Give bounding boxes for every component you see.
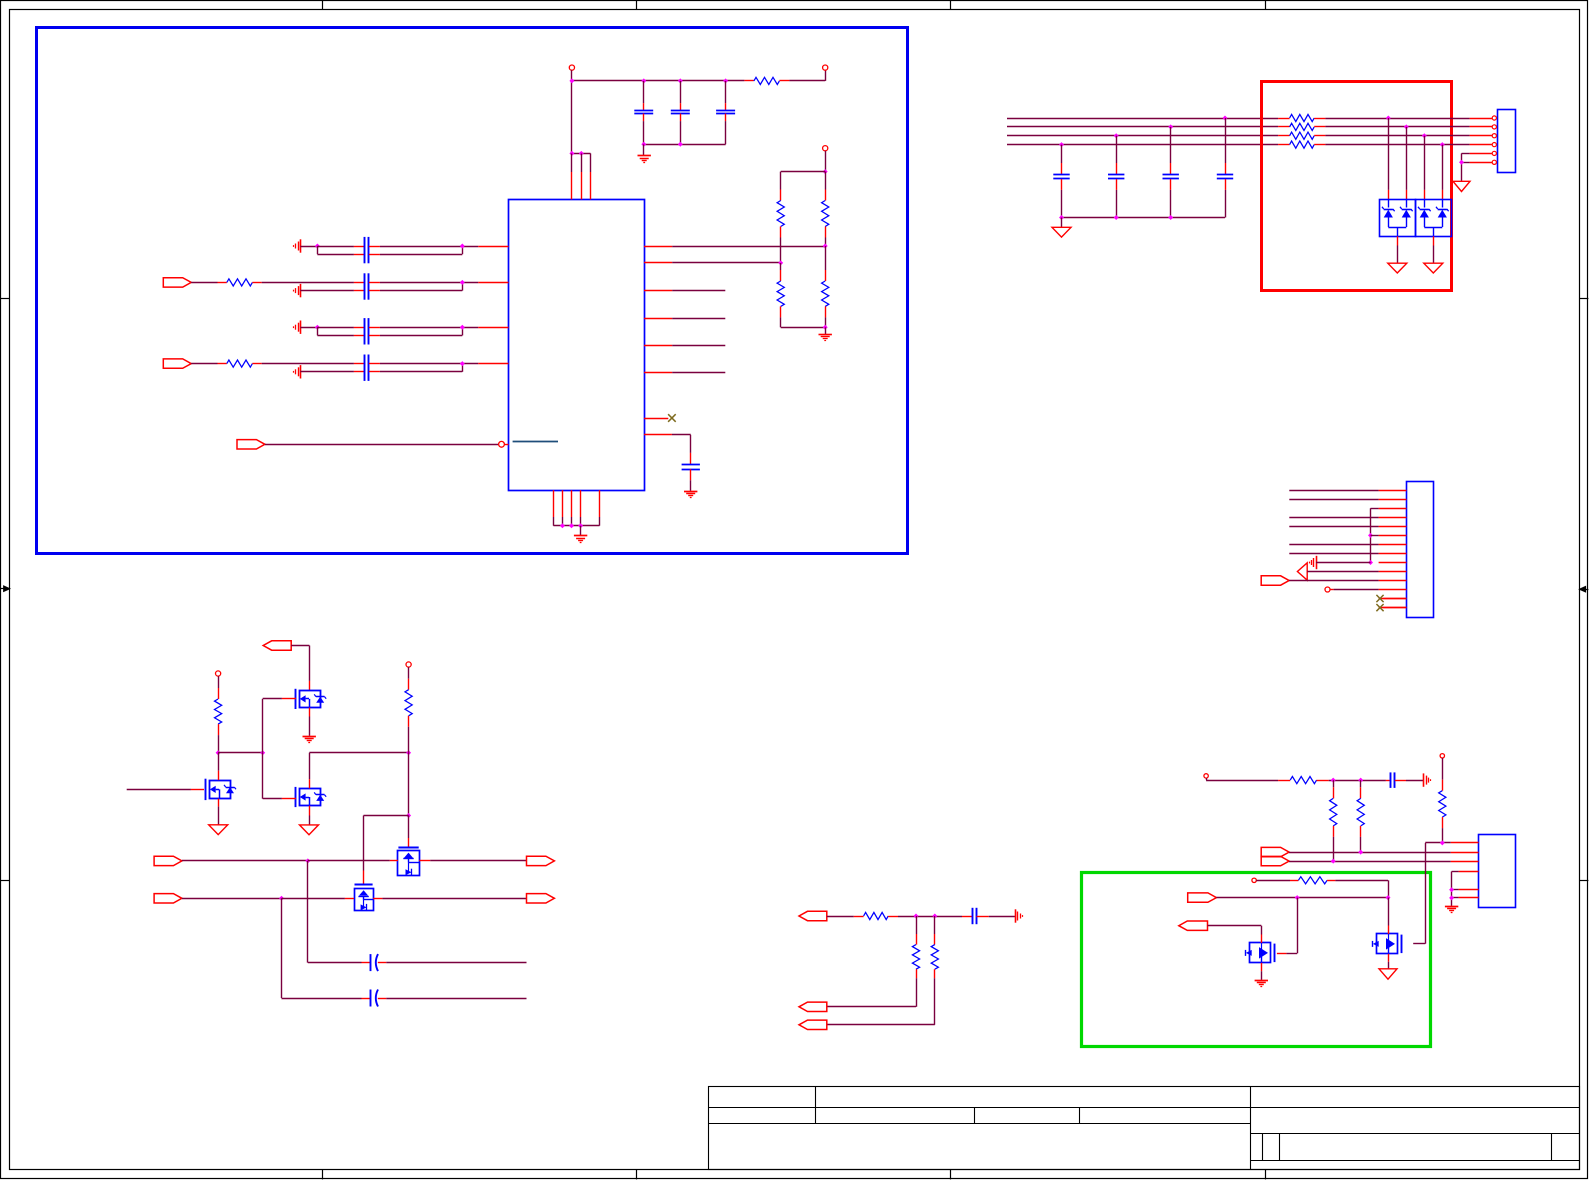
title block cell dividers left	[815, 1087, 817, 1124]
wire cap to U1 row1	[380, 246, 478, 248]
junction J2 pin9	[1368, 560, 1373, 565]
port P9 rail1 right	[527, 856, 555, 865]
wire stub y290	[672, 290, 725, 292]
ground GND1 bars	[638, 155, 651, 157]
wire resistor to cap row4	[262, 363, 354, 365]
ground triangle Q2	[300, 825, 319, 835]
rail1 wire	[182, 860, 308, 862]
connector J3 body	[1479, 835, 1516, 908]
ground Q1 bars	[303, 736, 316, 738]
wire bottom path row3	[317, 335, 354, 337]
resistor R14	[934, 916, 936, 934]
wire R11 node down	[408, 753, 410, 816]
zener common anode D1	[1388, 223, 1390, 228]
capacitor Cb1	[1223, 116, 1228, 121]
J3 pin3 wire	[1289, 861, 1451, 863]
wire bus to ground triangle	[1061, 218, 1063, 228]
bottom pin bus	[553, 525, 599, 527]
terminal circle green	[1252, 878, 1256, 882]
wire P12 to R12	[827, 916, 854, 918]
ground J3 bars	[1445, 906, 1458, 908]
earth ground row4	[300, 365, 302, 378]
earth ground divider	[819, 334, 832, 336]
wire to Q4 gate	[408, 816, 410, 839]
connector J2 body	[1407, 482, 1434, 618]
junction J1 gnd	[1459, 160, 1464, 165]
wire drop row3	[317, 327, 319, 335]
ground Q6 bars	[1255, 980, 1268, 982]
port P2 row2	[163, 278, 191, 287]
wire C8 to earth	[1406, 780, 1423, 782]
wire stub y345	[672, 345, 725, 347]
earth ground J2	[1316, 556, 1318, 569]
J1 pin6 wire	[1462, 162, 1470, 164]
port P16	[1179, 921, 1208, 930]
title block right cells	[1262, 1134, 1264, 1161]
junction RC node2	[932, 914, 937, 919]
no-connect J2 pin14	[1383, 607, 1406, 609]
U1 left pin row1	[478, 246, 508, 248]
junction divider top	[823, 169, 828, 174]
junction row4 right	[460, 361, 465, 366]
Q7 drain wire	[1388, 898, 1390, 926]
resistor R10 pullup	[216, 671, 221, 676]
J1 pin 1	[1492, 116, 1496, 120]
U1 left pin row4	[478, 363, 508, 365]
J1 pin5 wire	[1462, 153, 1470, 155]
port P5 enable	[237, 440, 265, 449]
J2 pin 14	[1379, 607, 1407, 609]
Q1 gate stub	[282, 698, 296, 700]
capacitor Cb2	[1168, 124, 1173, 129]
port P4 row4	[163, 359, 191, 368]
ground triangle caps	[1052, 227, 1071, 237]
U1 left pin row3	[478, 327, 508, 329]
J1 pin 5	[1492, 151, 1496, 155]
wire gate node left	[364, 815, 409, 817]
earth ground row1	[300, 239, 302, 252]
wire Q6 gate drop	[1297, 898, 1299, 954]
resistor R17	[1360, 780, 1362, 787]
wire bottom path row1	[317, 254, 354, 256]
cap ground bus	[644, 144, 726, 146]
wire cap to U1 row3	[380, 327, 478, 329]
cap array row1	[354, 246, 365, 248]
U1 left pin row2	[478, 282, 508, 284]
earth ground row3	[300, 321, 302, 334]
Q5 left stub	[345, 898, 354, 900]
J1 pin 2	[1492, 125, 1496, 129]
capacitor Cb3	[1114, 133, 1119, 138]
wire branch down to Q2 gate	[262, 753, 264, 799]
title block divider center	[1250, 1087, 1252, 1170]
U1 right pin 1	[644, 246, 672, 248]
J3 pin1 wire	[1425, 842, 1451, 844]
zener diodes D1	[1388, 199, 1390, 207]
wire earth to cap row2	[300, 290, 354, 292]
wire J3 pin1 down to Q7	[1425, 843, 1427, 944]
junction lr node2	[1358, 778, 1363, 783]
junction row1 right	[460, 244, 465, 249]
resistor R row4	[218, 363, 227, 365]
wire to pin12	[1334, 589, 1379, 591]
J2 pin 1	[1379, 490, 1407, 492]
Q6 source to ground	[1261, 963, 1263, 971]
TVS array D2 box	[1416, 200, 1452, 237]
wire P16 to Q6 drain	[1208, 925, 1262, 927]
cap array row4	[354, 363, 365, 365]
title block outline	[709, 1087, 1580, 1170]
wire drop row1	[317, 246, 319, 254]
wire triangle to pin10	[1307, 571, 1378, 573]
U1 top pins	[572, 153, 591, 155]
earth ground RC	[1015, 909, 1017, 922]
junction R10 node	[216, 750, 221, 755]
junction Q7 drain node	[1386, 895, 1391, 900]
junction J2 pin6	[1368, 533, 1373, 538]
port P14	[799, 1020, 827, 1029]
resistor R row2	[218, 282, 227, 284]
green highlight box	[1082, 873, 1431, 1047]
analog switch Q5	[355, 889, 374, 911]
Q7 source to ground	[1388, 954, 1390, 962]
port P11 rail2 right	[527, 894, 555, 903]
rail2 wire right	[382, 898, 526, 900]
J1 pin 4	[1492, 143, 1496, 147]
Q1 source to ground	[309, 708, 311, 717]
wire R12 to node	[898, 916, 962, 918]
earth ground row2	[300, 284, 302, 297]
J3 pin5 wire	[1459, 889, 1479, 891]
wire top path row3	[317, 327, 354, 329]
wire cap to U1 row4	[380, 363, 478, 365]
capacitor C2	[680, 81, 682, 103]
resistor R9 lower-right	[825, 246, 827, 270]
capacitor C8	[1386, 780, 1391, 782]
wire stub y318	[672, 318, 725, 320]
junction rail C1	[641, 78, 646, 83]
title block row line 1	[708, 1107, 1579, 1109]
junction row1 left	[315, 244, 320, 249]
resistor R18	[1440, 754, 1444, 758]
J2 long wires	[1289, 490, 1378, 492]
J2 pin 4	[1379, 517, 1407, 519]
wire rail1 branch to cap	[307, 861, 309, 963]
junction J3 pin1	[1440, 840, 1445, 845]
U1 right pin y345	[644, 345, 672, 347]
Q3 gate wire	[127, 789, 191, 791]
cap array row3	[354, 327, 365, 329]
Q2 gate stub	[282, 798, 296, 800]
port P10 rail2 left	[154, 894, 182, 903]
junction RC node1	[914, 914, 919, 919]
U1 right pin 2	[644, 262, 672, 264]
J2 pin 5	[1379, 526, 1407, 528]
port P15	[1188, 893, 1217, 902]
wire green terminal	[1256, 880, 1290, 882]
resistor R7 upper-right	[825, 172, 827, 190]
port P7 top	[263, 641, 291, 650]
wire bottom to junction row2	[380, 290, 462, 292]
wire top path row1	[317, 246, 354, 248]
J3 pin6 wire	[1459, 897, 1479, 899]
U1 right pin y290	[644, 290, 672, 292]
terminal circle lr	[1204, 774, 1208, 778]
triangle marker J2	[1297, 563, 1307, 580]
J3 gnd vertical	[1451, 872, 1453, 906]
capacitor C4	[690, 453, 692, 464]
J2 pin 10	[1379, 571, 1407, 573]
wire Q2 drain rail	[309, 752, 408, 754]
junction lr node1	[1331, 778, 1336, 783]
junction rail C2	[678, 78, 683, 83]
wire R5 to right terminal	[789, 80, 825, 82]
power rail wire	[572, 80, 745, 82]
J2 pin 13	[1379, 598, 1407, 600]
J2 pin 3	[1379, 508, 1407, 510]
junction R6 bottom	[778, 260, 783, 265]
wire bottom to junction row3	[380, 335, 462, 337]
Q2 source to ground	[309, 806, 311, 816]
TVS array D1 box	[1380, 200, 1416, 237]
J2 pin 11	[1379, 580, 1407, 582]
Q4 right stub	[419, 860, 430, 862]
J3 pin2 wire	[1289, 852, 1451, 854]
rail1 wire right	[430, 860, 526, 862]
terminal circle VDD left	[569, 65, 574, 70]
terminal circle right	[823, 65, 828, 70]
border zone ticks top	[322, 1, 324, 10]
wire to earth	[825, 327, 827, 334]
wire port to resistor row2	[191, 282, 217, 284]
blue highlight box	[37, 28, 908, 554]
U1 right pin y318	[644, 318, 672, 320]
capacitor C1	[643, 81, 645, 103]
J2 pin 6	[1379, 535, 1407, 537]
wire P5 to U1	[265, 444, 498, 446]
title block row line 2 left	[708, 1123, 1250, 1125]
wire top rail	[781, 171, 826, 173]
capacitor C5	[362, 962, 371, 964]
wire earth to cap row4	[300, 371, 354, 373]
border zone ticks bottom	[322, 1170, 324, 1180]
resistor R11 pullup	[406, 662, 411, 667]
wire bus to ground	[580, 526, 582, 536]
wire bus to ground	[643, 144, 645, 155]
wire earth to junction row1	[300, 246, 317, 248]
wire P6 to pin11	[1289, 580, 1379, 582]
wire P7 to Q1	[291, 645, 309, 647]
transistor Q3	[210, 781, 231, 799]
bus wires top-right	[1007, 118, 1278, 120]
pin-name bar inside U1	[513, 441, 558, 443]
ground triangle Q3	[209, 825, 228, 835]
wire VDD vertical	[571, 70, 573, 153]
port P6	[1261, 576, 1289, 585]
J2 pin 7	[1379, 544, 1407, 546]
J3 pin4 wire	[1459, 871, 1479, 873]
J2 pin 2	[1379, 499, 1407, 501]
transistor Q7	[1377, 934, 1398, 954]
connector J1 top-right	[1498, 110, 1516, 173]
wire R13 to P13	[827, 1006, 916, 1008]
cap array row2	[354, 282, 365, 284]
earth ground lr	[1423, 773, 1425, 786]
U1 right pin bypass	[644, 434, 672, 436]
wire pin2 to divider	[672, 262, 781, 264]
ground triangle Q7	[1379, 969, 1397, 979]
J1 gnd vertical	[1461, 153, 1463, 181]
analog switch Q4	[398, 851, 420, 876]
U1 right pin y372	[644, 372, 672, 374]
resistor R12	[854, 916, 864, 918]
wire C5 right	[386, 962, 526, 964]
ports stacked	[1261, 847, 1289, 856]
port P13	[799, 1002, 827, 1011]
wire R14 to P14	[827, 1024, 935, 1026]
wire bottom to junction row1	[380, 254, 462, 256]
wire resistor to cap row2	[262, 282, 354, 284]
junction branch	[260, 750, 265, 755]
port P12	[799, 911, 827, 920]
U1 bottom pins	[553, 490, 555, 517]
title block right rows	[1250, 1133, 1579, 1135]
junction bottom rail	[823, 325, 828, 330]
wire terminal down	[825, 151, 827, 172]
junction R7 bottom	[823, 244, 828, 249]
wire lr rail	[1206, 778, 1208, 780]
terminal circle divider top	[823, 146, 828, 151]
zener common anode D2	[1424, 223, 1426, 228]
zener diodes D2	[1424, 199, 1426, 207]
capacitor Cb4	[1059, 142, 1064, 147]
wire P15 to Q6 gate node	[1216, 897, 1388, 899]
J2 pin 9	[1379, 562, 1407, 564]
J2 bus vertical	[1370, 508, 1372, 562]
capacitor C7	[962, 916, 972, 918]
resistor R13	[916, 916, 918, 934]
resistor R8 lower-left	[780, 263, 782, 270]
bubble on U1 enable pin	[499, 441, 505, 447]
transistor Q1	[309, 681, 311, 690]
bottom rail wire	[781, 327, 826, 329]
J1 pin 6	[1492, 160, 1496, 164]
junction Q6 gate node	[1295, 895, 1300, 900]
IC U1 body	[509, 200, 645, 491]
junctions to TVS	[1386, 116, 1391, 121]
Q3 source to ground	[218, 799, 220, 807]
Q5 right stub	[373, 898, 382, 900]
wire R19 to Q7 drain	[1335, 880, 1388, 882]
capacitor C3	[725, 81, 727, 103]
wire pin1 to divider	[672, 246, 825, 248]
wire C6 right	[386, 998, 526, 1000]
wire stub y372	[672, 372, 725, 374]
transistor Q6	[1250, 943, 1271, 963]
J2 pin 8	[1379, 553, 1407, 555]
border zone ticks left	[1, 298, 10, 300]
ground GND2 bars	[684, 491, 697, 493]
wire bottom to junction row4	[380, 371, 462, 373]
junction rail C3	[723, 78, 728, 83]
wire R15 to nodes	[1329, 780, 1386, 782]
resistor R5 on rail	[744, 80, 754, 82]
resistor R6 upper-left	[780, 172, 782, 190]
wire cap to U1 row2	[380, 282, 478, 284]
resistor R15	[1278, 780, 1290, 782]
series resistors in red box	[1278, 118, 1290, 120]
wire branch up to Q1 gate	[262, 699, 264, 753]
ground triangle J1	[1453, 181, 1470, 191]
Q4 left stub	[390, 860, 398, 862]
junction row3 right	[460, 325, 465, 330]
J2 pin 12	[1379, 589, 1407, 591]
junction row2 right	[460, 280, 465, 285]
junction row3 left	[315, 325, 320, 330]
wire to Q5 gate	[363, 816, 365, 871]
no-connect X	[668, 414, 676, 422]
J1 pin 3	[1492, 134, 1496, 138]
ground GND3 bars	[574, 535, 587, 537]
resistor R19	[1290, 880, 1298, 882]
wire port to resistor row4	[191, 363, 217, 365]
terminal circle J2 pin12	[1325, 587, 1330, 592]
U1 right pin nc	[644, 418, 668, 420]
D2 ground	[1433, 236, 1435, 245]
no-connect J2 pin13	[1383, 598, 1406, 600]
Q2 drain wire	[309, 753, 311, 779]
border zone ticks right	[1579, 298, 1588, 300]
transistor Q2	[300, 789, 321, 806]
junction R11 node	[406, 750, 411, 755]
port P8 rail1 left	[154, 856, 182, 865]
border center arrow left	[1, 588, 6, 590]
Q3 drain wire	[218, 753, 220, 771]
wire node to branch	[218, 752, 263, 754]
wire earth to junction row3	[300, 327, 317, 329]
rail2 wire	[182, 898, 282, 900]
red highlight box	[1262, 82, 1452, 291]
junction rail left	[569, 78, 574, 83]
wire rail2 branch to cap	[281, 898, 283, 998]
junction gate node	[406, 813, 411, 818]
capacitor C6	[362, 998, 371, 1000]
D1 ground	[1397, 236, 1399, 245]
resistor R16	[1333, 780, 1335, 787]
wire pin to cap C4	[672, 434, 691, 436]
cap ground bus bottom	[1062, 217, 1226, 219]
border center arrow right	[1583, 589, 1588, 591]
wire C7 to earth	[989, 916, 1016, 918]
